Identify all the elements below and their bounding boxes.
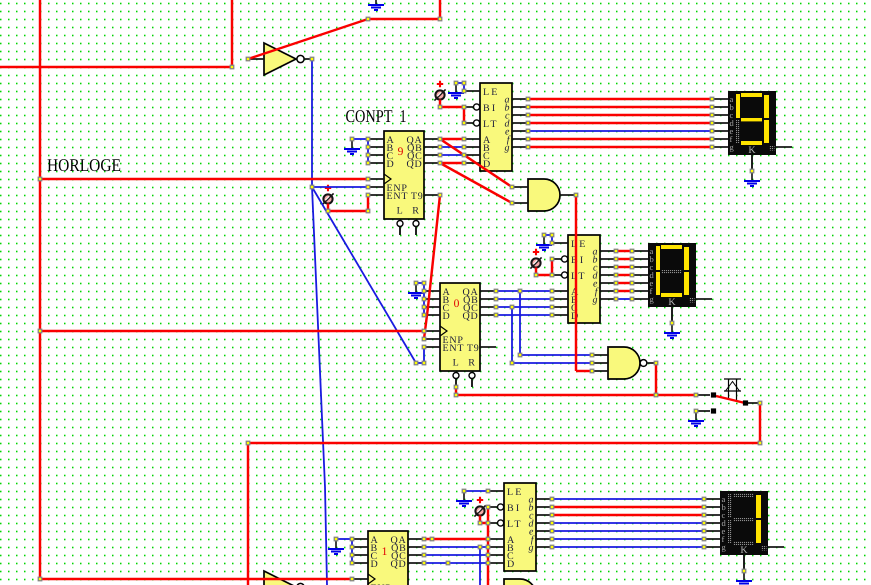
junction node (440,147)	[438, 145, 442, 149]
inverter U10 (clock buffer)	[264, 43, 304, 75]
wire: branch down from B3 row	[479, 547, 481, 585]
junction node (416,283)	[414, 281, 418, 285]
wire: pin stub (512,131)-(528,131)	[512, 130, 528, 132]
junction node (528,99)	[526, 97, 530, 101]
wire: pin stub (752,155)-(752,171)	[751, 155, 753, 171]
wire: pin stub (480,291)-(496,291)	[480, 290, 496, 292]
wire: QC2 branch down to NAND	[511, 307, 513, 363]
junction node (592,363)	[590, 361, 594, 365]
junction node (760,403)	[758, 401, 762, 405]
junction node (712,131)	[710, 129, 714, 133]
wire: pin stub (768,547)-(784,547)	[768, 546, 784, 548]
wire: pin stub (536,531)-(552,531)	[536, 530, 552, 532]
wire: pin stub (464,155)-(480,155)	[464, 154, 480, 156]
power terminal P3 (decoder U5 BI/LT)	[530, 249, 541, 269]
wire: U3 A-D tie bus	[351, 539, 353, 563]
junction node (632,283)	[630, 281, 634, 285]
svg-text:K: K	[748, 145, 756, 156]
junction node (704,539)	[702, 537, 706, 541]
wire: pin stub (712,131)-(728,131)	[712, 130, 728, 132]
wire: QD2 to decoder D	[496, 314, 552, 316]
wire: U3 tie	[336, 538, 352, 540]
wire: pin stub (536,547)-(552,547)	[536, 546, 552, 548]
junction node (632,267)	[630, 265, 634, 269]
wire: pin stub (632,251)-(648,251)	[632, 250, 648, 252]
ground (counter U2 inputs)	[408, 283, 424, 298]
junction node (352,139)	[350, 137, 354, 141]
junction node (424,547)	[422, 545, 426, 549]
7-segment display D1 (shows 9)	[728, 91, 776, 156]
junction node (368,187)	[366, 185, 370, 189]
wire: U2 tie top	[416, 282, 424, 284]
svg-text:R: R	[468, 358, 475, 369]
wire: pin stub (352,563)-(368,563)	[352, 562, 368, 564]
junction node (552,275)	[550, 273, 554, 277]
wire: U6 LE to ground	[464, 490, 488, 492]
junction node (456,395)	[454, 393, 458, 397]
wire: pin stub (464,91)-(480,91)	[464, 90, 480, 92]
wire: QA1 to decoder A	[440, 138, 464, 140]
junction node (512,307)	[510, 305, 514, 309]
junction node (440,19)	[438, 17, 442, 21]
wire: switch blade	[716, 396, 745, 403]
wire: pin stub (600,259)-(616,259)	[600, 258, 616, 260]
wire: pin stub (552,275)-(561.5,275)	[552, 274, 562, 276]
decoder U4 (7447-style)	[474, 83, 513, 171]
7-segment display D3 (shows 1)	[720, 491, 768, 556]
wire: pin stub (368,139)-(384,139)	[368, 138, 384, 140]
wire: inverter U10 output down	[311, 59, 313, 187]
junction node (704,515)	[702, 513, 706, 517]
junction node (616,259)	[614, 257, 618, 261]
junction node (424,363)	[422, 361, 426, 365]
junction node (712,107)	[710, 105, 714, 109]
junction node (368,211)	[366, 209, 370, 213]
wire: pin stub (512,203)-(528,203)	[512, 202, 528, 204]
wire: U4 LE loop to ground	[456, 83, 464, 91]
wire: U1 input tie	[352, 138, 368, 140]
wire: pin stub (704,515)-(720,515)	[704, 514, 720, 516]
wire: up to top edge	[231, 0, 233, 67]
junction node (248,443)	[246, 441, 250, 445]
junction node (336,539)	[334, 537, 338, 541]
wire: decoder U4 f to display	[528, 138, 712, 140]
junction node (440,195)	[438, 193, 442, 197]
wire: QC1 to decoder C	[440, 154, 464, 156]
junction node (464,491)	[462, 489, 466, 493]
junction node (488,523)	[486, 521, 490, 525]
junction node (696,411)	[694, 409, 698, 413]
wire: decoder U6 b to display	[552, 506, 704, 508]
wire: pin stub (560,195)-(576,195)	[560, 194, 576, 196]
svg-text:CONPT: CONPT	[346, 106, 393, 126]
wire: decoder U6 c to display	[552, 514, 704, 516]
junction node (512,187)	[510, 185, 514, 189]
wire: QB1 to decoder B	[440, 146, 464, 148]
junction node (656,363)	[654, 361, 658, 365]
junction node (488,539)	[486, 537, 490, 541]
wire: pin stub (712,139)-(728,139)	[712, 138, 728, 140]
junction node (352,539)	[350, 537, 354, 541]
wire: pin stub (416,226.5)-(416,235)	[415, 227, 417, 236]
junction node (424,299)	[422, 297, 426, 301]
junction node (552,299)	[550, 297, 554, 301]
wire: pin stub (368,187)-(384,187)	[368, 186, 384, 188]
junction node (480,523)	[478, 521, 482, 525]
wire: pin stub (352,547)-(368,547)	[352, 546, 368, 548]
power terminal P1 (decoder U4 BI/LT)	[434, 81, 445, 101]
junction node (704,531)	[702, 529, 706, 533]
junction node (552,243)	[550, 241, 554, 245]
wire: pin stub (424,315)-(440,315)	[424, 314, 440, 316]
junction node (592,371)	[590, 369, 594, 373]
wire: switch common down	[759, 403, 761, 443]
junction node (520,291)	[518, 289, 522, 293]
wire: inverter input feedback (diagonal)	[248, 19, 368, 59]
wire: pin stub (368,147)-(384,147)	[368, 146, 384, 148]
wire: pin stub (424,291)-(440,291)	[424, 290, 440, 292]
junction node (712,115)	[710, 113, 714, 117]
junction node (488,547)	[486, 545, 490, 549]
wire: NAND output to U2 load and switch	[456, 394, 696, 396]
wire: QB2 to decoder B	[496, 298, 552, 300]
junction node (528,123)	[526, 121, 530, 125]
junction node (496,307)	[494, 305, 498, 309]
wire: pin stub (536,515)-(552,515)	[536, 514, 552, 516]
wire: pin stub (712,147)-(728,147)	[712, 146, 728, 148]
junction node (40,579)	[38, 577, 42, 581]
counter U3 (74160-style)	[368, 531, 408, 585]
junction node (632,291)	[630, 289, 634, 293]
switch contact squares	[711, 392, 716, 397]
junction node (488,491)	[486, 489, 490, 493]
junction node (552,531)	[550, 529, 554, 533]
junction node (368,163)	[366, 161, 370, 165]
wire: pin stub (552,291)-(568,291)	[552, 290, 568, 292]
svg-text:QD: QD	[463, 311, 479, 322]
wire: pin stub (512,99)-(528,99)	[512, 98, 528, 100]
junction node (656,395)	[654, 393, 658, 397]
wire: pin stub (552,259)-(561.5,259)	[552, 258, 562, 260]
junction node (368,139)	[366, 137, 370, 141]
wire: pin stub (408,555)-(424,555)	[408, 554, 424, 556]
svg-text:g: g	[593, 295, 598, 306]
wire: pin stub (424,307)-(440,307)	[424, 306, 440, 308]
wire: pin stub (424,339)-(440,339)	[424, 338, 440, 340]
junction node (424,539)	[422, 537, 426, 541]
svg-text:BI: BI	[483, 103, 497, 114]
svg-text:BI: BI	[507, 503, 521, 514]
wire: top feedback horizontal	[368, 18, 440, 20]
junction node (616,291)	[614, 289, 618, 293]
wire: pin stub (552,315)-(568,315)	[552, 314, 568, 316]
wire: pin stub (512,115)-(528,115)	[512, 114, 528, 116]
wire: pin stub (632,299)-(648,299)	[632, 298, 648, 300]
junction node (632,299)	[630, 297, 634, 301]
wire: pin stub (424,139)-(440,139)	[424, 138, 440, 140]
wire: HORLOGE to U3 clock	[40, 578, 352, 580]
junction node (368,155)	[366, 153, 370, 157]
svg-text:g: g	[529, 543, 534, 554]
junction node (552,307)	[550, 305, 554, 309]
wire: pin stub (352,555)-(368,555)	[352, 554, 368, 556]
junction node (760,443)	[758, 441, 762, 445]
junction node (424,291)	[422, 289, 426, 293]
wire: pin stub (464,123)-(473.5,123)	[464, 122, 474, 124]
wire: pin stub (424,347)-(440,347)	[424, 346, 440, 348]
wire: pin stub (552,307)-(568,307)	[552, 306, 568, 308]
ground (display D3 cathode)	[736, 555, 752, 585]
junction node (552,235)	[550, 233, 554, 237]
junction node (544,235)	[542, 233, 546, 237]
wire: pin stub (632,267)-(648,267)	[632, 266, 648, 268]
junction node (40,179)	[38, 177, 42, 181]
wire: top feedback up	[439, 0, 441, 19]
junction node (464,107)	[462, 105, 466, 109]
wire: decoder U4 a to display	[528, 98, 712, 100]
wire: bottom return	[248, 442, 760, 444]
junction node (456,387)	[454, 385, 458, 389]
wire: pin stub (592,355)-(608,355)	[592, 354, 608, 356]
wire: U1 T9 to U2 ENP (jagged)	[424, 195, 440, 339]
svg-text:LE: LE	[507, 487, 524, 498]
wire: pin stub (512,107)-(528,107)	[512, 106, 528, 108]
svg-text:D: D	[507, 559, 516, 570]
wire: HORLOGE to U2 clock	[40, 330, 424, 332]
wire: pin stub (600,291)-(616,291)	[600, 290, 616, 292]
wire: up to U2 L pin	[455, 387, 457, 395]
svg-text:QD: QD	[407, 159, 423, 170]
junction node (488,563)	[486, 561, 490, 565]
junction node (416,363)	[414, 361, 418, 365]
svg-text:LT: LT	[507, 519, 523, 530]
wire: decoder U5 c to display	[616, 266, 632, 268]
junction node (312,187)	[310, 185, 314, 189]
wire: pin stub (512,187)-(528,187)	[512, 186, 528, 188]
wire: pin stub (304,59)-(312,59)	[304, 58, 312, 60]
wire: pin stub (536,507)-(552,507)	[536, 506, 552, 508]
wire: power rail down decoder U6	[487, 507, 489, 585]
wire: pin stub (600,275)-(616,275)	[600, 274, 616, 276]
junction node (552,315)	[550, 313, 554, 317]
svg-text:ENT: ENT	[443, 343, 465, 354]
svg-text:BI: BI	[571, 255, 585, 266]
junction node (712,139)	[710, 137, 714, 141]
wire: decoder U5 e to display	[616, 282, 632, 284]
svg-text:QD: QD	[391, 559, 407, 570]
wire: pin stub (488,563)-(504,563)	[488, 562, 504, 564]
junction node (352,579)	[350, 577, 354, 581]
wire: pin stub (744,555)-(744,571)	[743, 555, 745, 571]
svg-text:T9: T9	[467, 343, 480, 354]
wire: pin stub (424,299)-(440,299)	[424, 298, 440, 300]
wire: pin stub (472,378.5)-(472,387)	[471, 379, 473, 388]
wire: pin stub (464,107)-(473.5,107)	[464, 106, 474, 108]
decoder U5 (7447-style)	[562, 235, 601, 323]
junction node (496,299)	[494, 297, 498, 301]
power terminal P2 (counter U1 ENT)	[322, 185, 333, 205]
junction node (552,515)	[550, 513, 554, 517]
wire: NAND input 1	[520, 354, 592, 356]
junction node (424,347)	[422, 345, 426, 349]
junction node (464,91)	[462, 89, 466, 93]
junction node (368,179)	[366, 177, 370, 181]
wire: pin stub (712,99)-(728,99)	[712, 98, 728, 100]
wire: pin stub (696,411)-(710,411)	[696, 410, 710, 412]
ground (decoder U4 LE)	[448, 83, 464, 98]
wire: decoder U6 a to display	[552, 498, 704, 500]
wire: decoder U6 d to display	[552, 522, 704, 524]
wire: pin stub (480,299)-(496,299)	[480, 298, 496, 300]
wire: NAND output down	[655, 363, 657, 395]
wire: pin stub (352,539)-(368,539)	[352, 538, 368, 540]
junction node (464,147)	[462, 145, 466, 149]
wire: HORLOGE trunk vertical	[39, 0, 41, 579]
svg-text:1: 1	[382, 546, 388, 558]
wire: pin stub (368,179)-(384,179)	[368, 178, 384, 180]
wire: pin stub (696,395)-(710,395)	[696, 394, 710, 396]
counter U2 (74160-style)	[440, 283, 480, 387]
svg-text:LE: LE	[571, 239, 588, 250]
wire: inverter out to U2 ENT (diagonal)	[312, 187, 416, 363]
wire: pin stub (647,363)-(656,363)	[647, 362, 656, 364]
svg-text:LT: LT	[483, 119, 499, 130]
junction node (488,507)	[486, 505, 490, 509]
junction node (704,523)	[702, 521, 706, 525]
svg-text:0: 0	[454, 298, 460, 310]
wire: pin stub (712,115)-(728,115)	[712, 114, 728, 116]
wire: pin stub (400,226.5)-(400,235)	[399, 227, 401, 236]
junction node (248,59)	[246, 57, 250, 61]
junction node (488,555)	[486, 553, 490, 557]
junction node (552,547)	[550, 545, 554, 549]
junction node (752,171)	[750, 169, 754, 173]
wire: pin stub (512,123)-(528,123)	[512, 122, 528, 124]
ground (counter U1 inputs)	[344, 139, 360, 154]
wire: pin stub (408,563)-(424,563)	[408, 562, 424, 564]
wire: U2 A-D tie bus	[423, 283, 425, 315]
junction node (712,99)	[710, 97, 714, 101]
junction node (592,355)	[590, 353, 594, 357]
junction node (440,107)	[438, 105, 442, 109]
wire: pin stub (536,539)-(552,539)	[536, 538, 552, 540]
wire: pin stub (424,331)-(440,331)	[424, 330, 440, 332]
wire: pin stub (552,299)-(568,299)	[552, 298, 568, 300]
svg-text:LT: LT	[571, 271, 587, 282]
wire: pin stub (488,555)-(504,555)	[488, 554, 504, 556]
wire: pin stub (600,267)-(616,267)	[600, 266, 616, 268]
wire: pin stub (424,163)-(440,163)	[424, 162, 440, 164]
wire: pin stub (748,403)-(760,403)	[748, 402, 760, 404]
wire: pin stub (536,499)-(552,499)	[536, 498, 552, 500]
junction node (704,547)	[702, 545, 706, 549]
svg-text:HORLOGE: HORLOGE	[47, 155, 121, 175]
junction node (440,163)	[438, 161, 442, 165]
junction node (632,259)	[630, 257, 634, 261]
wire: pin stub (488,547)-(504,547)	[488, 546, 504, 548]
ground (display D1 cathode)	[744, 155, 760, 186]
junction node (464,155)	[462, 153, 466, 157]
svg-text:D: D	[371, 559, 379, 570]
wire: pin stub (456,378.5)-(456,387)	[455, 379, 457, 388]
wire: pin stub (712,123)-(728,123)	[712, 122, 728, 124]
wire: power P1 to BI/LT	[440, 100, 464, 124]
wire: pin stub (632,283)-(648,283)	[632, 282, 648, 284]
wire: pin stub (704,499)-(720,499)	[704, 498, 720, 500]
junction node (352,555)	[350, 553, 354, 557]
wire: decoder U5 f to display	[616, 290, 632, 292]
junction node (424,331)	[422, 329, 426, 333]
wire: QC3 to decoder C	[424, 554, 488, 556]
junction node (368,19)	[366, 17, 370, 21]
wire: pin stub (368,155)-(384,155)	[368, 154, 384, 156]
junction node (232,67)	[230, 65, 234, 69]
junction node (552,259)	[550, 257, 554, 261]
wire: AND output down	[575, 195, 577, 371]
wire: pin stub (464,147)-(480,147)	[464, 146, 480, 148]
wire: QA2 branch down to NAND	[519, 291, 521, 355]
wire: pin stub (464,163)-(480,163)	[464, 162, 480, 164]
wire: pin stub (696,299)-(712,299)	[696, 298, 712, 300]
wire: decoder U6 g to display	[552, 546, 704, 548]
svg-text:g: g	[505, 143, 510, 154]
wire: pin stub (600,283)-(616,283)	[600, 282, 616, 284]
junction node (312,59)	[310, 57, 314, 61]
wire: QA1 to AND input (diagonal)	[440, 139, 512, 187]
svg-text:R: R	[412, 206, 419, 217]
junction node (480,547)	[478, 545, 482, 549]
wire: decoder U4 g to display	[528, 146, 712, 148]
wire: decoder U5 b to display	[616, 258, 632, 260]
wire: decoder U4 e to display	[528, 130, 712, 132]
wire: net to left edge	[0, 66, 232, 68]
junction node (464,123)	[462, 121, 466, 125]
wire: pin stub (488,523)-(497.5,523)	[488, 522, 498, 524]
wire: decoder U6 e to display	[552, 530, 704, 532]
wire: pin stub (512,147)-(528,147)	[512, 146, 528, 148]
junction node (352,563)	[350, 561, 354, 565]
wire: pin stub (632,275)-(648,275)	[632, 274, 648, 276]
ground (display D2 cathode)	[664, 307, 680, 338]
svg-text:T9: T9	[411, 191, 424, 202]
junction node (464,163)	[462, 161, 466, 165]
svg-text:K: K	[740, 545, 748, 556]
counter U1 (74160-style)	[384, 131, 424, 235]
junction node (616,275)	[614, 273, 618, 277]
junction node (528,131)	[526, 129, 530, 133]
wire: decoder U4 d to display	[528, 122, 712, 124]
junction node (528,147)	[526, 145, 530, 149]
wire: pin stub (248,59)-(264,59)	[248, 58, 264, 60]
wire: QD3 to decoder D	[424, 562, 488, 564]
svg-text:D: D	[387, 159, 395, 170]
junction node (496,315)	[494, 313, 498, 317]
junction node (616,251)	[614, 249, 618, 253]
junction node (496,291)	[494, 289, 498, 293]
wire: pin stub (368,163)-(384,163)	[368, 162, 384, 164]
junction node (616,283)	[614, 281, 618, 285]
wire: pin stub (704,547)-(720,547)	[704, 546, 720, 548]
junction node (456,83)	[454, 81, 458, 85]
wire: pin stub (480,307)-(496,307)	[480, 306, 496, 308]
wire: pin stub (424,147)-(440,147)	[424, 146, 440, 148]
wire: pin stub (488,491)-(504,491)	[488, 490, 504, 492]
svg-text:LE: LE	[483, 87, 500, 98]
wire: pin stub (536,523)-(552,523)	[536, 522, 552, 524]
svg-text:K: K	[668, 297, 676, 308]
wire: pin stub (368,195)-(384,195)	[368, 194, 384, 196]
junction node (512,203)	[510, 201, 514, 205]
